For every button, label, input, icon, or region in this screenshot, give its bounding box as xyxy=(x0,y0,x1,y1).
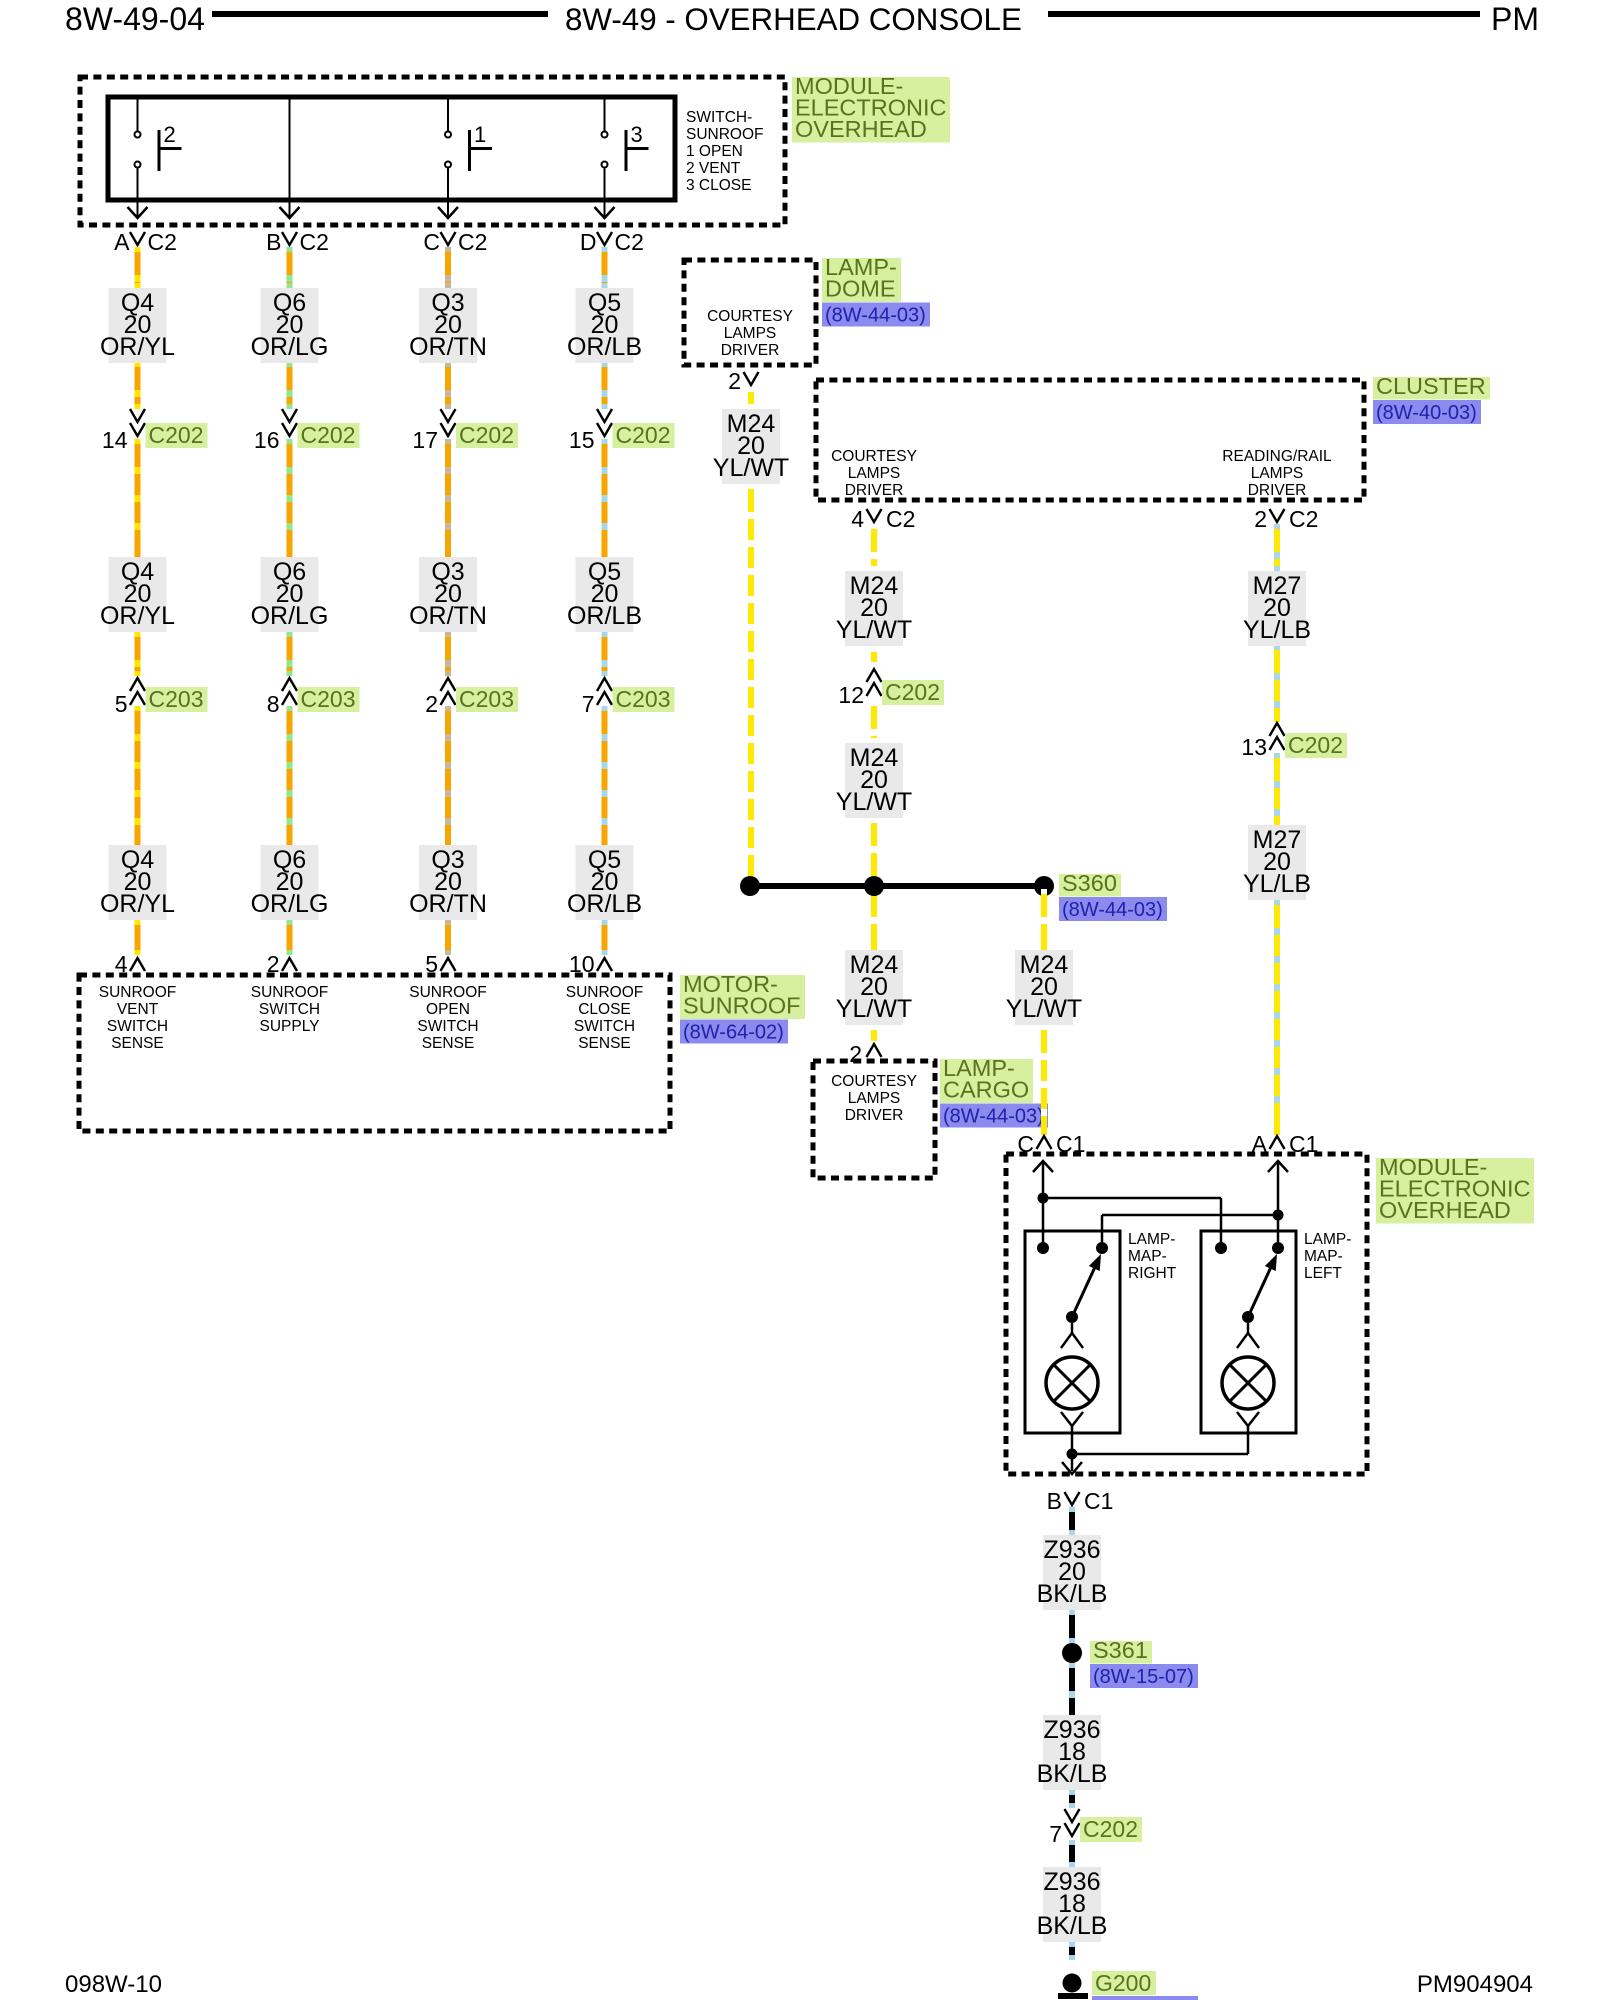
svg-text:2: 2 xyxy=(425,691,438,717)
svg-text:C2: C2 xyxy=(615,229,644,255)
svg-text:OR/LG: OR/LG xyxy=(251,602,329,630)
svg-text:OR/LB: OR/LB xyxy=(567,333,642,361)
svg-text:YL/LB: YL/LB xyxy=(1243,616,1311,644)
svg-text:C202: C202 xyxy=(149,422,204,448)
svg-text:SWITCH-: SWITCH- xyxy=(686,109,752,126)
svg-text:COURTESY: COURTESY xyxy=(707,308,793,325)
svg-text:SENSE: SENSE xyxy=(422,1035,475,1052)
svg-text:SUNROOF: SUNROOF xyxy=(683,993,801,1019)
svg-text:OR/LG: OR/LG xyxy=(251,890,329,918)
svg-text:SUNROOF: SUNROOF xyxy=(99,984,177,1001)
svg-text:2: 2 xyxy=(1254,506,1267,532)
svg-text:8W-49 - OVERHEAD CONSOLE: 8W-49 - OVERHEAD CONSOLE xyxy=(565,2,1022,37)
svg-text:OR/TN: OR/TN xyxy=(409,602,487,630)
svg-text:LAMPS: LAMPS xyxy=(724,325,777,342)
svg-text:1 OPEN: 1 OPEN xyxy=(686,143,743,160)
svg-text:17: 17 xyxy=(412,427,438,453)
svg-text:C203: C203 xyxy=(459,686,514,712)
svg-text:SUNROOF: SUNROOF xyxy=(409,984,487,1001)
svg-text:DOME: DOME xyxy=(825,276,896,302)
svg-text:B: B xyxy=(1047,1488,1062,1514)
svg-text:MAP-: MAP- xyxy=(1128,1248,1167,1265)
svg-text:3 CLOSE: 3 CLOSE xyxy=(686,177,751,194)
svg-text:MAP-: MAP- xyxy=(1304,1248,1343,1265)
svg-text:A: A xyxy=(114,229,130,255)
svg-text:LAMP-: LAMP- xyxy=(1128,1231,1175,1248)
svg-text:PM: PM xyxy=(1491,1,1539,37)
svg-text:YL/LB: YL/LB xyxy=(1243,870,1311,898)
svg-text:1: 1 xyxy=(474,122,486,147)
svg-text:DRIVER: DRIVER xyxy=(845,482,904,499)
svg-text:C202: C202 xyxy=(459,422,514,448)
svg-text:8: 8 xyxy=(267,691,280,717)
svg-text:C202: C202 xyxy=(616,422,671,448)
svg-text:OR/LB: OR/LB xyxy=(567,602,642,630)
svg-text:C202: C202 xyxy=(885,679,940,705)
svg-text:SWITCH: SWITCH xyxy=(107,1018,168,1035)
svg-text:(8W-44-03): (8W-44-03) xyxy=(943,1106,1044,1128)
svg-text:12: 12 xyxy=(838,682,864,708)
svg-text:CLOSE: CLOSE xyxy=(578,1001,631,1018)
svg-text:OR/LB: OR/LB xyxy=(567,890,642,918)
svg-text:(8W-64-02): (8W-64-02) xyxy=(683,1022,784,1044)
svg-text:S361: S361 xyxy=(1093,1637,1148,1663)
svg-text:SENSE: SENSE xyxy=(111,1035,164,1052)
svg-text:(8W-40-03): (8W-40-03) xyxy=(1376,402,1477,424)
svg-text:16: 16 xyxy=(254,427,280,453)
svg-text:LAMPS: LAMPS xyxy=(848,1090,901,1107)
svg-text:LAMP-: LAMP- xyxy=(1304,1231,1351,1248)
svg-text:YL/WT: YL/WT xyxy=(836,616,912,644)
svg-text:G200: G200 xyxy=(1095,1970,1151,1996)
svg-text:C1: C1 xyxy=(1084,1488,1113,1514)
svg-text:CARGO: CARGO xyxy=(943,1077,1029,1103)
svg-text:C203: C203 xyxy=(149,686,204,712)
svg-text:SWITCH: SWITCH xyxy=(259,1001,320,1018)
svg-text:7: 7 xyxy=(582,691,595,717)
svg-text:SWITCH: SWITCH xyxy=(574,1018,635,1035)
svg-text:C2: C2 xyxy=(148,229,177,255)
svg-text:BK/LB: BK/LB xyxy=(1037,1912,1108,1940)
svg-text:SUNROOF: SUNROOF xyxy=(686,126,764,143)
svg-text:OVERHEAD: OVERHEAD xyxy=(795,116,927,142)
svg-text:OR/YL: OR/YL xyxy=(100,890,175,918)
svg-text:LAMPS: LAMPS xyxy=(848,465,901,482)
svg-text:C: C xyxy=(423,229,440,255)
svg-text:YL/WT: YL/WT xyxy=(713,454,789,482)
svg-text:COURTESY: COURTESY xyxy=(831,1073,917,1090)
svg-text:DRIVER: DRIVER xyxy=(721,342,780,359)
svg-text:OR/LG: OR/LG xyxy=(251,333,329,361)
svg-text:SUPPLY: SUPPLY xyxy=(259,1018,319,1035)
svg-text:SUNROOF: SUNROOF xyxy=(566,984,644,1001)
svg-text:SENSE: SENSE xyxy=(578,1035,631,1052)
svg-text:VENT: VENT xyxy=(117,1001,159,1018)
svg-text:C203: C203 xyxy=(616,686,671,712)
svg-text:SUNROOF: SUNROOF xyxy=(251,984,329,1001)
svg-text:DRIVER: DRIVER xyxy=(845,1107,904,1124)
svg-text:(8W-44-03): (8W-44-03) xyxy=(1062,899,1163,921)
svg-text:4: 4 xyxy=(851,506,864,532)
svg-text:C2: C2 xyxy=(300,229,329,255)
svg-text:2 VENT: 2 VENT xyxy=(686,160,741,177)
svg-text:098W-10: 098W-10 xyxy=(65,1971,162,1998)
svg-text:S360: S360 xyxy=(1062,870,1117,896)
svg-text:D: D xyxy=(580,229,597,255)
svg-text:C2: C2 xyxy=(1289,506,1318,532)
svg-text:5: 5 xyxy=(115,691,128,717)
svg-text:13: 13 xyxy=(1241,734,1267,760)
svg-text:YL/WT: YL/WT xyxy=(836,788,912,816)
svg-text:(8W-15-07): (8W-15-07) xyxy=(1093,1666,1194,1688)
svg-text:OPEN: OPEN xyxy=(426,1001,470,1018)
svg-text:(8W-44-03): (8W-44-03) xyxy=(825,305,926,327)
svg-text:7: 7 xyxy=(1049,1821,1062,1847)
svg-text:YL/WT: YL/WT xyxy=(836,995,912,1023)
svg-text:OVERHEAD: OVERHEAD xyxy=(1379,1197,1511,1223)
svg-text:BK/LB: BK/LB xyxy=(1037,1580,1108,1608)
svg-text:PM904904: PM904904 xyxy=(1417,1971,1533,1998)
svg-text:OR/YL: OR/YL xyxy=(100,333,175,361)
svg-text:15: 15 xyxy=(569,427,595,453)
svg-text:COURTESY: COURTESY xyxy=(831,448,917,465)
svg-text:8W-49-04: 8W-49-04 xyxy=(65,1,205,37)
svg-text:3: 3 xyxy=(631,122,643,147)
svg-text:2: 2 xyxy=(164,122,176,147)
svg-text:CLUSTER: CLUSTER xyxy=(1376,373,1486,399)
svg-text:SWITCH: SWITCH xyxy=(417,1018,478,1035)
svg-text:C202: C202 xyxy=(1288,732,1343,758)
svg-text:READING/RAIL: READING/RAIL xyxy=(1222,448,1332,465)
svg-text:C2: C2 xyxy=(886,506,915,532)
svg-text:YL/WT: YL/WT xyxy=(1006,995,1082,1023)
svg-text:2: 2 xyxy=(728,368,741,394)
svg-text:OR/TN: OR/TN xyxy=(409,333,487,361)
svg-text:DRIVER: DRIVER xyxy=(1248,482,1307,499)
svg-text:RIGHT: RIGHT xyxy=(1128,1265,1177,1282)
svg-text:BK/LB: BK/LB xyxy=(1037,1760,1108,1788)
svg-text:C202: C202 xyxy=(301,422,356,448)
svg-text:OR/TN: OR/TN xyxy=(409,890,487,918)
svg-text:C203: C203 xyxy=(301,686,356,712)
svg-text:LAMPS: LAMPS xyxy=(1251,465,1304,482)
svg-text:OR/YL: OR/YL xyxy=(100,602,175,630)
svg-text:C202: C202 xyxy=(1083,1816,1138,1842)
svg-text:LEFT: LEFT xyxy=(1304,1265,1342,1282)
svg-text:C2: C2 xyxy=(458,229,487,255)
svg-text:B: B xyxy=(266,229,281,255)
svg-text:14: 14 xyxy=(102,427,128,453)
